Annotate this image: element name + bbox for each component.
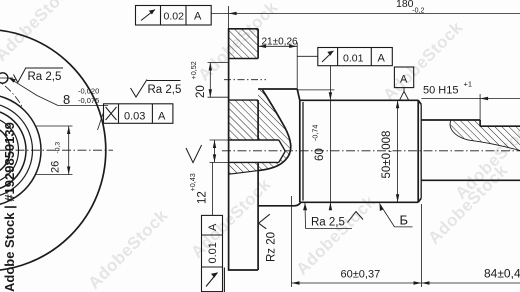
- svg-text:Rz 20: Rz 20: [266, 232, 278, 262]
- tolerance frame 0.01 A (upper shaft): [297, 55, 318, 57]
- svg-text:0.01: 0.01: [207, 242, 219, 263]
- svg-text:A: A: [194, 11, 202, 23]
- svg-text:8: 8: [63, 92, 70, 107]
- svg-text:21±0,26: 21±0,26: [262, 36, 299, 47]
- Rz 20 with symbol: [259, 214, 270, 229]
- surface finish Ra 2,5 (second): [131, 80, 148, 98]
- dimension 26-0,3 dim line with arrows: [67, 126, 70, 175]
- rotated tolerance frame 0.01 A (bottom left): [202, 215, 223, 291]
- svg-text:50 H15: 50 H15: [423, 85, 458, 97]
- break wavy line lower flange: [229, 171, 258, 175]
- svg-text:0.01: 0.01: [343, 52, 364, 64]
- hub bottom silhouette line: [258, 202, 301, 206]
- svg-text:+0,43: +0,43: [188, 173, 197, 191]
- left view hub circle r56: [0, 94, 41, 206]
- dim 20+0,52: [208, 63, 229, 98]
- dim 50 H15 +1: [479, 94, 481, 126]
- flange hatch lower region: [229, 151, 290, 174]
- svg-text:AdobeStock: AdobeStock: [187, 175, 274, 262]
- left view axis dash-dot: [0, 149, 113, 151]
- svg-text:180: 180: [396, 0, 414, 10]
- local section break line: [450, 120, 520, 151]
- dimension 26-0,3 text: [50, 142, 62, 173]
- bolt hole small circle: [0, 73, 8, 83]
- hub edge extension line: [297, 89, 334, 91]
- B label with leader: [395, 226, 413, 228]
- left view circle r33.5: [0, 117, 19, 184]
- svg-text:Ra 2,5: Ra 2,5: [311, 217, 345, 229]
- svg-text:+1: +1: [464, 80, 473, 89]
- svg-text:50±0,008: 50±0,008: [381, 131, 393, 179]
- svg-text:-0,3: -0,3: [55, 142, 62, 154]
- left view circle r41: [0, 109, 26, 191]
- bolt hole edges in flange: [229, 59, 259, 101]
- datum A flag: [394, 67, 413, 88]
- left view bore circle r25: [0, 125, 10, 175]
- svg-text:-0,020: -0,020: [78, 87, 99, 96]
- leader from rotated frame up to bore: [212, 162, 214, 215]
- svg-text:Adobe Stock | #1929850139: Adobe Stock | #1929850139: [2, 122, 17, 292]
- main axis dash-dot: [222, 150, 520, 152]
- vertical watermark left edge: [2, 122, 17, 292]
- svg-text:0.02: 0.02: [164, 10, 185, 22]
- dimension 26-0,3 ext lines: [36, 125, 73, 127]
- svg-text:20: 20: [195, 85, 207, 98]
- svg-text:60±0,37: 60±0,37: [341, 268, 381, 280]
- svg-text:12: 12: [197, 191, 209, 204]
- tolerance frame 0.02 A (top): [136, 6, 212, 26]
- dim 84±0,43: [422, 282, 520, 284]
- bolt hole axis: [224, 79, 266, 81]
- hub top edge: [258, 88, 297, 90]
- dim 60±0,37: [292, 196, 422, 287]
- flange outline: [229, 29, 300, 270]
- dim 50±0,008: [396, 100, 399, 202]
- bolt circle dash-dot r73: [0, 78, 23, 108]
- svg-text:84±0,43: 84±0,43: [484, 267, 520, 281]
- svg-text:AdobeStock: AdobeStock: [84, 206, 171, 292]
- dim 21±0,26: [258, 43, 297, 90]
- svg-text:A: A: [158, 111, 166, 123]
- surface finish Ra 2,5 (upper left): [14, 68, 27, 83]
- left view outer circle (flange OD): [0, 29, 106, 271]
- svg-text:A: A: [378, 53, 386, 65]
- svg-text:Б: Б: [400, 213, 409, 228]
- dim 12+0,43: [210, 140, 229, 162]
- tolerance frame X 0.03 A: [104, 104, 173, 124]
- big surface check near 12 dim: [186, 145, 202, 163]
- svg-text:A: A: [400, 74, 408, 86]
- svg-text:-0,2: -0,2: [412, 7, 424, 14]
- leader and text 8 -0,020/-0,075: [9, 78, 58, 106]
- svg-text:-0,075: -0,075: [78, 96, 99, 105]
- shaft 60 section outline: [299, 100, 301, 202]
- fillet curve bottom to shaft: [258, 152, 290, 170]
- flange hatch top rect: [229, 29, 259, 59]
- svg-text:A: A: [207, 223, 219, 231]
- short vertical line right of rotated frame: [223, 268, 225, 292]
- bore lines (hole 12): [229, 140, 286, 162]
- svg-text:26: 26: [50, 161, 62, 173]
- fillet S-curve top: [263, 90, 291, 152]
- svg-text:-0,74: -0,74: [311, 125, 320, 141]
- Ra 2,5 bottom with leader: [304, 203, 307, 229]
- flange hatch mid region (to fillet curve): [229, 89, 291, 152]
- local section hatch at slot: [450, 120, 520, 151]
- bolt hole axis dash: [0, 77, 13, 79]
- dim 180-0,2: [228, 6, 230, 29]
- dim 60 -0,74: [329, 66, 332, 211]
- svg-text:+0,52: +0,52: [189, 61, 198, 79]
- svg-text:Ra 2,5: Ra 2,5: [28, 71, 62, 83]
- svg-text:60: 60: [314, 148, 326, 161]
- left view circle r47.5: [0, 103, 33, 198]
- tail section outline: [421, 120, 520, 180]
- svg-text:Ra 2,5: Ra 2,5: [148, 84, 182, 96]
- svg-text:0.03: 0.03: [124, 111, 145, 123]
